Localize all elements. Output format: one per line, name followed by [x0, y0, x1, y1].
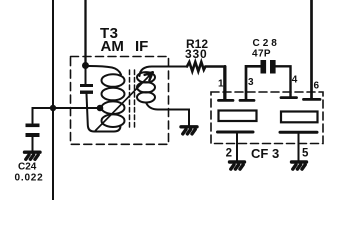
wire pin6 from top	[310, 0, 313, 98]
svg-text:6: 6	[314, 81, 320, 92]
svg-text:47P: 47P	[252, 49, 271, 60]
capacitor C24	[26, 124, 40, 138]
pin 1 plate	[224, 67, 227, 101]
ground (secondary)	[181, 127, 197, 134]
wire C28 right to pin4	[276, 66, 291, 96]
bottom plate right	[280, 131, 317, 134]
ground under C24	[25, 152, 41, 159]
wire C24 to ground	[32, 137, 34, 151]
ground (pin 5)	[292, 162, 307, 169]
inductor T3 secondary winding	[140, 67, 188, 77]
transformer T3 box (dashed)	[71, 57, 169, 145]
pin 3 plate	[240, 99, 254, 102]
node junction at coil tap	[97, 105, 104, 112]
node junction at left bus	[50, 105, 56, 111]
inductor T3 primary winding	[86, 66, 121, 75]
pin 6 plate	[304, 98, 321, 101]
resonator element left	[219, 111, 257, 122]
svg-text:5: 5	[302, 148, 309, 160]
node junction at T3 primary top	[82, 62, 89, 69]
tuning arrow	[96, 72, 153, 130]
wire vertical left bus	[52, 0, 54, 200]
wire pin5 to ground	[298, 134, 300, 161]
capacitor C28	[261, 60, 276, 74]
bottom plate left	[218, 131, 254, 134]
wire C28 left to pin3	[246, 66, 261, 99]
svg-text:330: 330	[185, 47, 207, 61]
wire secondary bottom to ground	[146, 103, 189, 126]
svg-text:C28: C28	[253, 38, 280, 49]
svg-text:2: 2	[226, 148, 232, 160]
svg-text:IF: IF	[135, 38, 148, 55]
svg-text:0.022: 0.022	[15, 173, 44, 184]
ground (pin 2)	[230, 162, 245, 169]
svg-text:4: 4	[292, 75, 298, 86]
CF3 box (dashed)	[211, 92, 323, 144]
svg-text:3: 3	[248, 77, 254, 88]
svg-text:1: 1	[218, 79, 224, 90]
core (dashed lines)	[130, 70, 135, 130]
resonator element right	[281, 112, 318, 123]
capacitor (T3 primary tuning)	[85, 66, 87, 85]
svg-text:C24: C24	[18, 162, 37, 173]
wire vertical to T3 primary top	[84, 0, 86, 66]
wire cap bottom to coil bottom return	[87, 94, 121, 132]
wire horizontal base line	[33, 108, 100, 123]
resistor R12	[187, 62, 225, 99]
svg-text:AM: AM	[101, 38, 124, 55]
pin 4 plate	[281, 96, 297, 99]
wire pin2 to ground	[236, 134, 238, 162]
svg-text:CF 3: CF 3	[251, 146, 279, 161]
